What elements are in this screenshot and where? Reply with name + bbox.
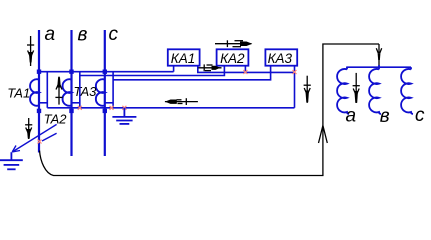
svg-text:КА1: КА1 <box>171 51 195 66</box>
svg-text:TA3: TA3 <box>74 84 98 99</box>
wire L3 from TA3 to KA3 <box>113 66 271 80</box>
wire KA1 left riser <box>173 66 175 72</box>
phase line b <box>70 30 72 156</box>
wire TA2 secondary vertical <box>79 72 81 108</box>
pink junction ground stem <box>122 106 126 110</box>
phase line c <box>104 30 106 156</box>
svg-text:в: в <box>78 24 88 45</box>
svg-text:TA2: TA2 <box>44 111 68 126</box>
current arrow Ia top (down) <box>27 36 34 66</box>
svg-text:КА3: КА3 <box>268 51 293 66</box>
junction dot c top <box>103 70 107 74</box>
junction dot b top <box>69 70 73 74</box>
transformer secondary top bus <box>346 66 411 68</box>
transformer winding b (right) <box>369 65 381 114</box>
ground middle <box>112 108 136 124</box>
wire return bus <box>47 107 294 109</box>
relay KA3 <box>265 49 297 65</box>
black feed arrow into transformer (down) <box>376 44 381 66</box>
current arrow above KA2 (right) <box>215 40 252 47</box>
junction dot a lower <box>37 109 41 113</box>
junction dot a top <box>37 70 41 74</box>
wire TA2 secondary link <box>72 102 80 104</box>
wire L2 from TA2 to KA2 <box>80 66 225 76</box>
wire TA1 secondary vertical <box>46 72 48 108</box>
pink junction KA2 right <box>243 70 247 74</box>
junction dot b lower <box>69 109 73 113</box>
current arrow in TA1 loop (up) <box>55 77 62 105</box>
pink junction KA3 right <box>293 70 297 74</box>
current arrow in right transformer (down) <box>353 73 360 103</box>
wire TA1 secondary link <box>39 102 47 104</box>
wire KA2 right riser <box>244 66 246 73</box>
svg-text:a: a <box>45 24 56 45</box>
pink junction line a diagonal <box>38 140 42 144</box>
current arrow on common wire (right) <box>198 64 221 71</box>
current arrow Ia bottom (down) <box>25 118 32 139</box>
wire TA3 secondary link <box>105 102 113 104</box>
current arrow right of return drop (down) <box>304 76 311 103</box>
pink junction TA2 bottom <box>78 106 82 110</box>
wire TA3 secondary vertical <box>112 72 114 108</box>
pink junction TA3 bottom <box>110 106 114 110</box>
relay KA1 <box>168 49 200 65</box>
phase line a <box>38 30 40 153</box>
wire KA3 right riser and return drop <box>294 66 296 108</box>
svg-text:в: в <box>380 106 390 127</box>
black wire bottom loop <box>40 44 380 176</box>
junction dot c lower <box>103 109 107 113</box>
svg-text:TA1: TA1 <box>7 85 30 100</box>
relay KA2 <box>217 49 249 65</box>
current arrow on return bus (left) <box>165 98 198 105</box>
transformer TA1 coil <box>30 79 39 106</box>
svg-text:c: c <box>415 105 425 126</box>
wire common return from KA1 right <box>198 66 295 73</box>
transformer TA3 coil <box>96 79 105 106</box>
ground bottom-left <box>0 152 23 169</box>
transformer winding a (right) <box>337 67 349 114</box>
svg-text:c: c <box>109 24 119 45</box>
transformer TA2 coil <box>63 79 72 106</box>
svg-text:a: a <box>346 106 357 127</box>
wire common line A <box>39 71 174 73</box>
transformer winding c (right) <box>401 67 413 114</box>
grounding diagonal arrow <box>12 124 56 152</box>
svg-text:КА2: КА2 <box>220 51 245 66</box>
arrowhead up on black return wire <box>319 126 328 144</box>
